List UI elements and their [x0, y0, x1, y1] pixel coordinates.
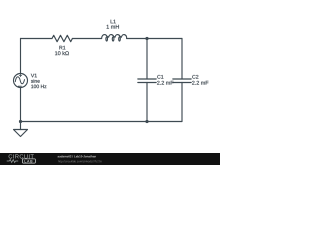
label C2 value 2.2 mF	[192, 81, 208, 85]
wire C1 bottom lead	[146, 83, 148, 122]
label R1 value 10 k-ohm	[55, 51, 69, 55]
node junction dot ground	[19, 120, 22, 123]
voltage source V1 circle	[14, 74, 28, 88]
label C2	[192, 75, 198, 79]
V1 plus sign	[19, 74, 21, 76]
resistor R1	[52, 35, 72, 41]
wire top-left horizontal	[21, 38, 53, 40]
label C1 value 2.2 mF	[157, 81, 173, 85]
inductor L1	[102, 35, 127, 42]
label C1	[157, 75, 163, 79]
V1 sine waveform	[15, 77, 24, 84]
ground triangle	[14, 130, 28, 137]
footer logo word LAB	[25, 160, 33, 162]
wire L1 to top-right corner	[127, 38, 182, 40]
footer bar	[0, 153, 220, 165]
wire bottom horizontal	[21, 121, 183, 123]
label R1	[59, 46, 65, 50]
footer credit line user and title	[58, 155, 96, 157]
footer logo word CIRCUIT	[9, 154, 34, 158]
label V1 frequency 100 Hz	[31, 85, 46, 89]
label V1 waveform sine	[31, 79, 40, 83]
capacitor C2 plates	[173, 79, 191, 83]
wire C2 top lead	[181, 39, 183, 80]
V1 minus sign	[18, 85, 21, 87]
label L1	[111, 20, 116, 24]
capacitor C1 plates	[138, 79, 156, 83]
node junction dot C1 bottom	[145, 120, 148, 123]
wire C2 bottom lead	[181, 83, 183, 122]
label L1 value 1 mH	[107, 25, 119, 29]
node junction dot C1 top	[145, 37, 148, 40]
label V1	[31, 74, 37, 78]
wire left vertical to source	[20, 39, 22, 74]
wire source bottom lead	[20, 88, 22, 122]
wire C1 top lead	[146, 39, 148, 80]
footer logo resistor squiggle	[7, 160, 18, 163]
footer logo LAB box	[22, 159, 35, 163]
wire between R1 and L1	[72, 38, 101, 40]
footer url line	[58, 160, 101, 163]
ground stem	[20, 122, 22, 130]
